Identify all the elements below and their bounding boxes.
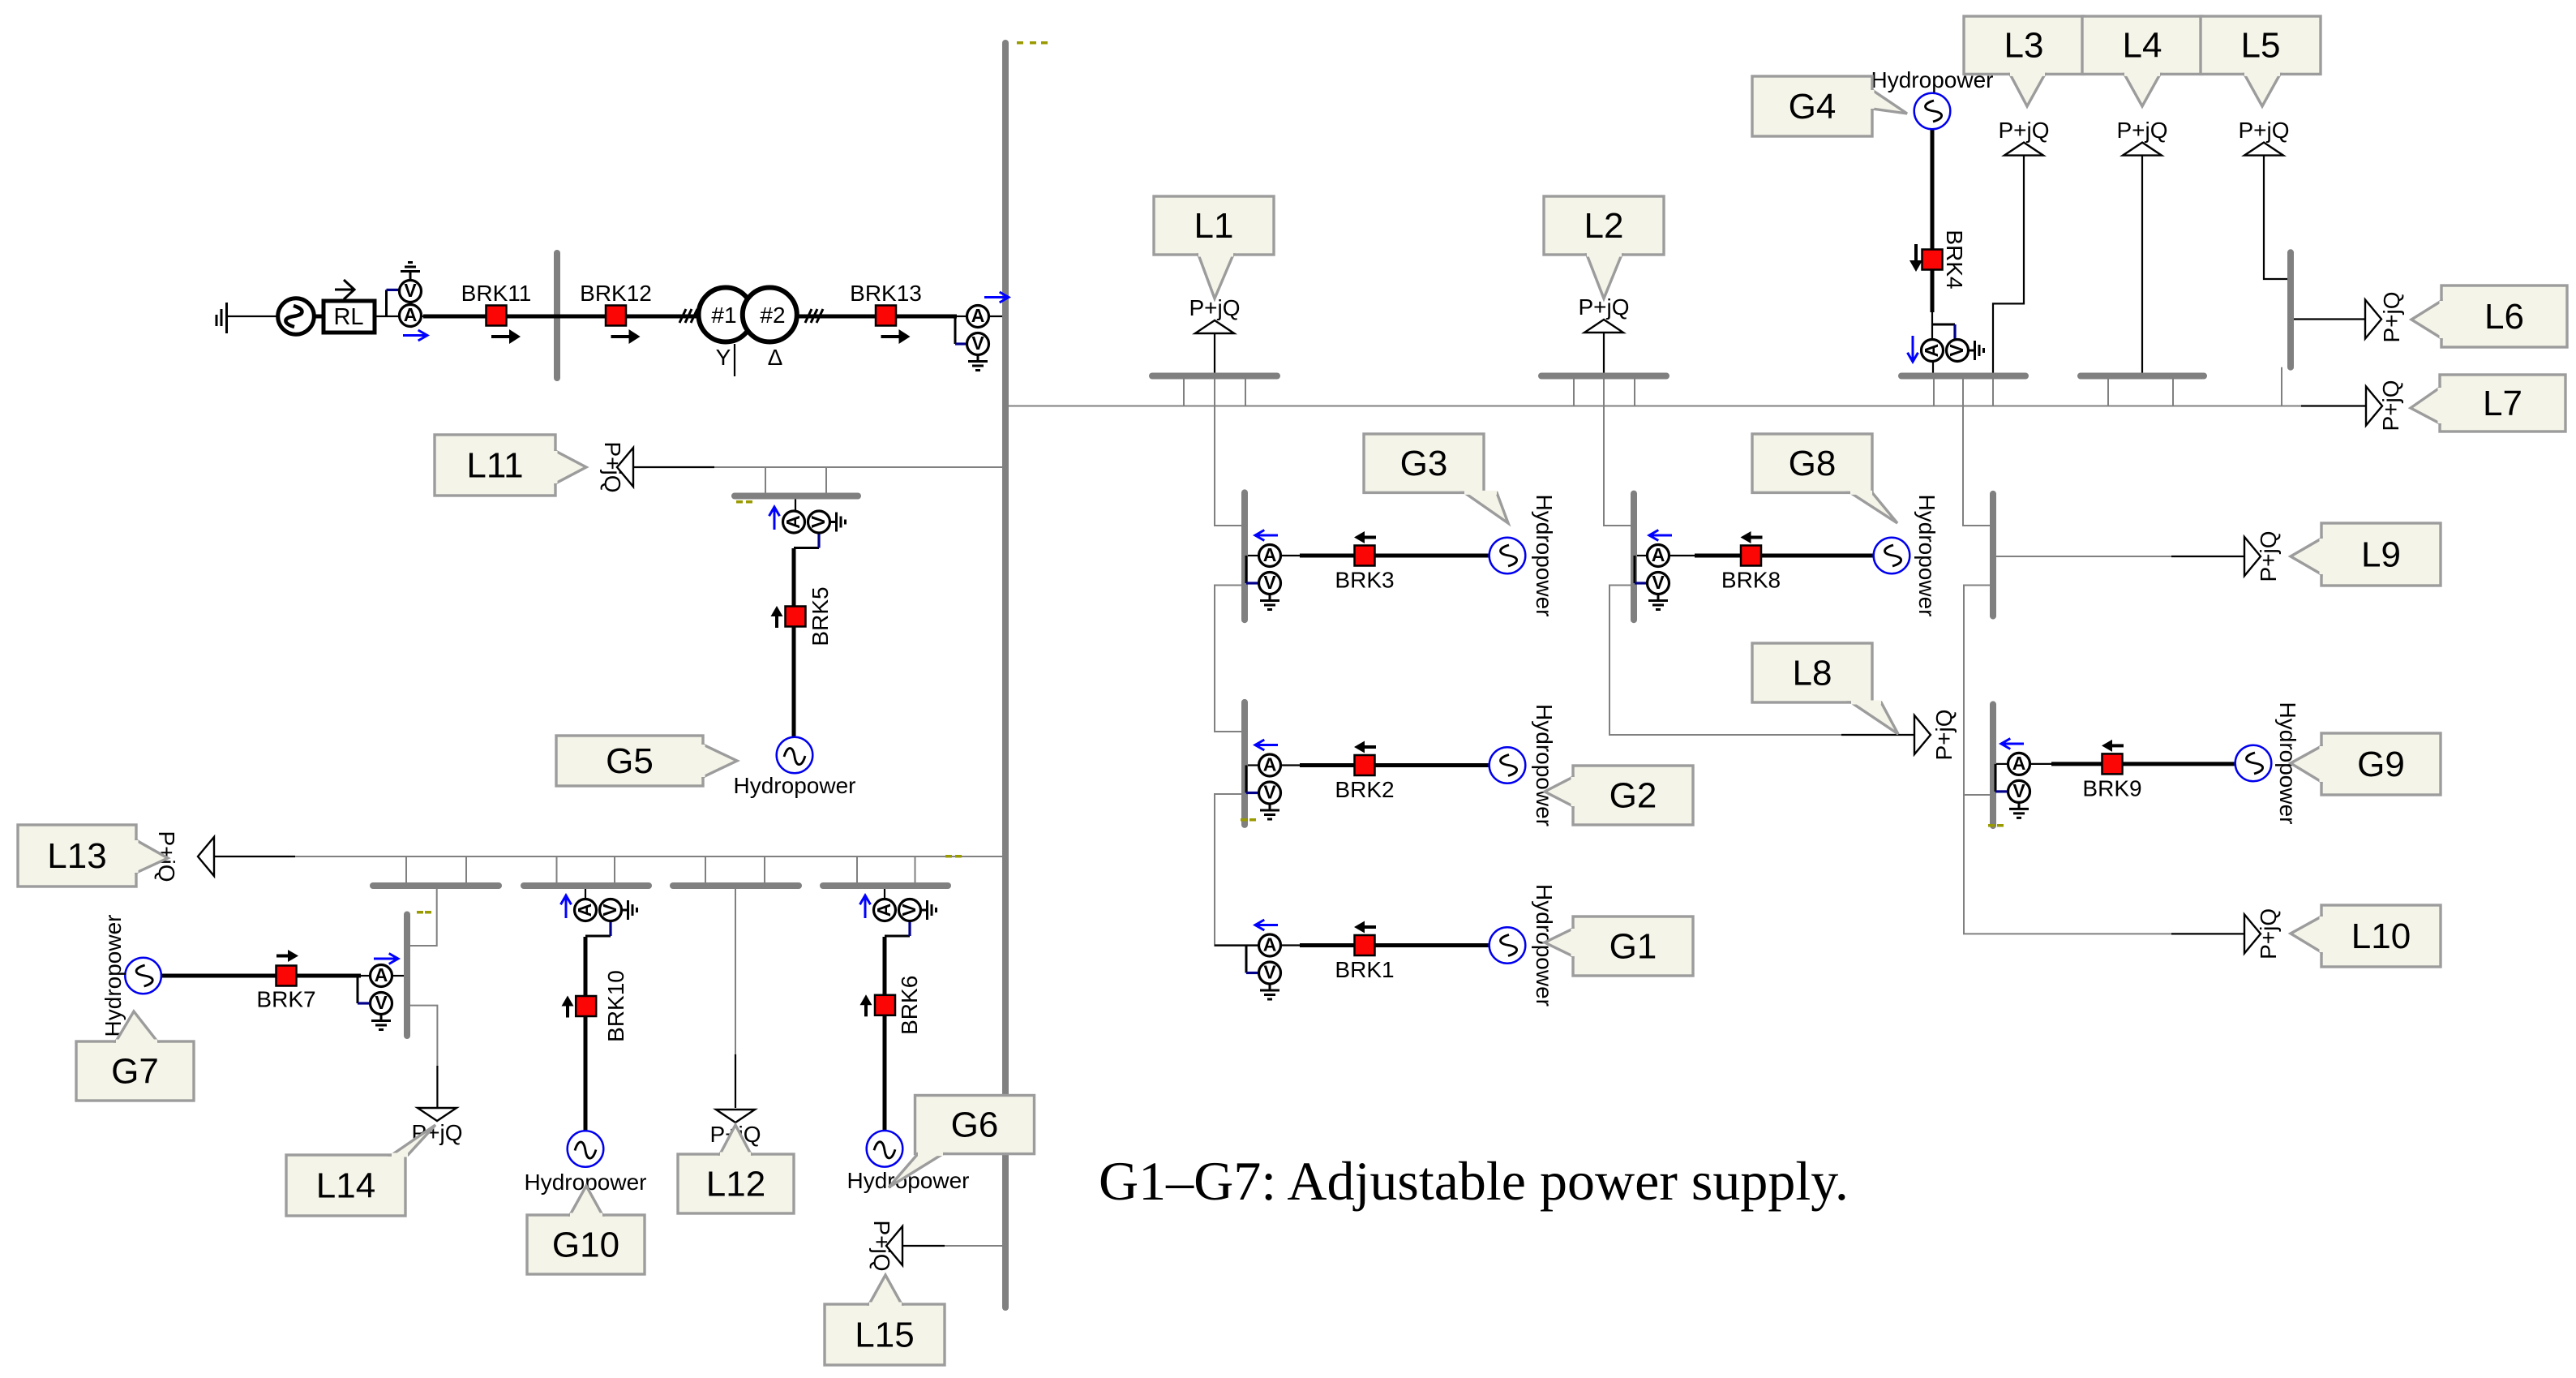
callout L13 <box>18 825 168 886</box>
ammeter A (G10) <box>574 899 597 921</box>
ammeter A (G8) <box>1648 544 1669 567</box>
wire main trunk to L7 <box>1005 406 2301 407</box>
wire G1 tap <box>1215 944 1259 946</box>
bus G4/L3 <box>1901 373 2025 380</box>
wire meters to BRK11 <box>422 316 426 317</box>
G3 meter bracket <box>1245 556 1248 583</box>
wire G8 tap2 <box>1669 555 1695 556</box>
ground <box>1260 595 1279 610</box>
wire G9 bus tap <box>1996 763 2008 765</box>
bus L1 <box>1152 373 1277 380</box>
voltmeter V (G10) <box>599 899 622 921</box>
mark <box>417 911 423 914</box>
mark <box>945 855 952 858</box>
BRK12 flow arrow <box>611 329 641 344</box>
wire stub bus5 left <box>705 856 706 883</box>
callout L2 <box>1544 196 1664 298</box>
mark <box>425 911 431 914</box>
svg-text:G10: G10 <box>552 1226 619 1265</box>
BRK6 flow arrow <box>860 994 872 1016</box>
wire stub L4 bus right <box>2172 379 2174 406</box>
wire L15 to main bus <box>945 1245 1005 1247</box>
wire RL to meters junction <box>375 316 400 317</box>
svg-text:BRK2: BRK2 <box>1335 777 1394 802</box>
wire G4 thick <box>1931 128 1935 312</box>
svg-text:Hydropower: Hydropower <box>734 773 856 798</box>
wire stub bus4 left <box>556 856 558 883</box>
svg-text:BRK12: BRK12 <box>580 281 652 306</box>
ground <box>968 355 988 371</box>
wire L15 stem <box>902 1245 945 1247</box>
wire stub G4 bus right <box>1992 379 1994 406</box>
wire G2 bus to G1 row <box>1215 794 1259 946</box>
breaker BRK13 <box>876 306 896 326</box>
load L3 arrow <box>2004 143 2043 156</box>
wire L9 <box>1996 556 2171 557</box>
callout L1 <box>1154 196 1274 298</box>
wire right meters to main bus <box>989 316 1006 317</box>
svg-text:P+jQ: P+jQ <box>2378 380 2403 431</box>
chain meter bracket <box>385 290 388 316</box>
bus bottom 2 <box>524 882 649 889</box>
ground <box>1648 595 1668 610</box>
svg-text:P+jQ: P+jQ <box>2238 118 2289 143</box>
ammeter A (G3) <box>1259 544 1281 567</box>
wire stub L1 bus left <box>1183 379 1185 406</box>
wire L1 triangle stem <box>1214 333 1215 373</box>
voltmeter V (G1) <box>1259 962 1281 985</box>
svg-text:V: V <box>375 992 388 1013</box>
wire L7 stem <box>2301 405 2366 406</box>
generator G7 <box>125 958 161 994</box>
callout L9 <box>2291 523 2441 586</box>
mark <box>1030 41 1036 45</box>
svg-text:BRK11: BRK11 <box>461 281 532 306</box>
svg-text:BRK8: BRK8 <box>1721 568 1781 593</box>
transformer T1 <box>699 288 797 342</box>
bus L2 <box>1541 373 1666 380</box>
wire L10 stem <box>2171 933 2244 934</box>
G7 meter bracket <box>357 976 359 1003</box>
blue arrow G4 <box>1908 336 1918 362</box>
svg-text:L14: L14 <box>316 1166 375 1206</box>
mark <box>1041 41 1048 45</box>
voltmeter V (G3) <box>1259 572 1281 595</box>
svg-text:BRK7: BRK7 <box>256 987 315 1012</box>
svg-text:BRK13: BRK13 <box>850 281 922 306</box>
svg-text:V: V <box>1263 572 1276 593</box>
svg-text:A: A <box>782 515 804 529</box>
svg-text:L12: L12 <box>706 1165 765 1204</box>
svg-text:P+jQ: P+jQ <box>600 441 625 492</box>
arrow above RL <box>335 280 354 299</box>
wire stub L2 bus left <box>1573 379 1575 406</box>
callout G4 <box>1752 76 1907 136</box>
svg-text:BRK4: BRK4 <box>1942 230 1967 289</box>
bus G5 <box>735 493 858 500</box>
svg-text:P+jQ: P+jQ <box>2256 908 2281 959</box>
callout G2 <box>1545 766 1693 825</box>
load L4 arrow <box>2123 143 2162 156</box>
wire L13 stem <box>214 856 295 857</box>
wire G3 bus to G2 bus <box>1215 586 1243 732</box>
ammeter A (G5) <box>782 511 805 533</box>
mark <box>1997 824 2004 827</box>
bus G9 <box>1990 704 1996 826</box>
svg-text:A: A <box>1263 754 1277 775</box>
mark <box>1249 818 1256 822</box>
svg-text:L4: L4 <box>2123 26 2162 66</box>
BRK13 flow arrow <box>881 329 911 344</box>
wire G10 thick <box>584 937 588 1132</box>
svg-text:Y: Y <box>716 345 731 370</box>
svg-text:A: A <box>971 305 985 326</box>
svg-text:Hydropower: Hydropower <box>1532 495 1557 617</box>
generator G10 <box>568 1131 604 1167</box>
wire G7 tap <box>361 975 371 977</box>
ammeter A (G9) <box>2008 753 2030 775</box>
ground <box>401 263 420 281</box>
callout G5 <box>556 736 737 786</box>
load L9 arrow <box>2244 537 2261 576</box>
wire bus4 to G10 meters <box>585 889 586 900</box>
bus L4 <box>2081 373 2204 380</box>
voltmeter V (G2) <box>1259 782 1281 805</box>
G8 meter bracket <box>1634 556 1636 583</box>
ground <box>2009 802 2029 818</box>
blue arrow G6 <box>860 895 871 918</box>
svg-text:L6: L6 <box>2484 297 2524 337</box>
BRK5 flow arrow <box>771 606 783 628</box>
wire G6 thick <box>883 937 887 1131</box>
G6 meter bracket <box>885 935 910 938</box>
svg-text:V: V <box>404 280 417 301</box>
wire stub bus6 right <box>915 856 916 883</box>
svg-text:G7: G7 <box>111 1052 159 1092</box>
wire chain thick <box>423 315 957 319</box>
wire stub G5 bus right <box>825 467 827 493</box>
svg-text:P+jQ: P+jQ <box>2379 291 2404 342</box>
blue arrow G10 <box>561 895 572 918</box>
breaker BRK2 <box>1355 755 1375 775</box>
callout G1 <box>1545 917 1693 976</box>
svg-text:Hydropower: Hydropower <box>1532 704 1557 826</box>
load L1 arrow <box>1195 320 1234 333</box>
wire L8 stem <box>1841 734 1914 736</box>
voltmeter V (G5) <box>808 511 830 533</box>
wire G9 thick <box>2051 762 2236 766</box>
svg-text:L1: L1 <box>1194 206 1234 246</box>
G5 meter bracket <box>794 547 819 549</box>
wire G3 tap2 <box>1281 555 1301 556</box>
svg-text:#2: #2 <box>760 303 785 328</box>
breaker BRK4 <box>1922 250 1943 270</box>
generator G8 <box>1874 538 1910 574</box>
svg-text:A: A <box>1263 544 1277 565</box>
load L2 arrow <box>1584 320 1623 333</box>
wire G5 thick <box>792 548 796 738</box>
wire BRK13 meters gap <box>957 316 967 317</box>
wire bus10 to G9 bus to L10 <box>1964 586 2171 934</box>
G9 meter bracket <box>1995 764 1997 792</box>
wire G3 bus tap <box>1248 555 1259 556</box>
wire G1 thick <box>1300 943 1490 947</box>
ammeter A (chain left) <box>400 304 422 327</box>
bus bottom 4 <box>823 882 948 889</box>
svg-text:G5: G5 <box>606 741 654 781</box>
wire stub L4 bus left <box>2107 379 2109 406</box>
wire L2 triangle stem <box>1603 333 1605 373</box>
ground <box>830 513 846 532</box>
callout L7 <box>2411 375 2565 431</box>
voltmeter V (G9) <box>2008 780 2030 803</box>
svg-text:Hydropower: Hydropower <box>101 915 126 1037</box>
ground <box>1260 804 1279 819</box>
blue arrow G5 <box>769 507 780 530</box>
ammeter A (G4) <box>1921 340 1944 362</box>
wire stub bus4 right <box>614 856 615 883</box>
BRK9 flow arrow <box>2102 740 2124 752</box>
callout L10 <box>2291 905 2441 967</box>
svg-text:V: V <box>1652 572 1665 593</box>
callout L11 <box>435 435 586 496</box>
breaker BRK9 <box>2102 753 2123 774</box>
wire L11 to main bus <box>714 466 1005 468</box>
wire stub G5 bus left <box>765 467 766 493</box>
breaker BRK12 <box>606 306 626 326</box>
RL block <box>324 301 375 333</box>
callout L3 <box>1964 16 2084 106</box>
wire stub bus3 right <box>465 856 467 883</box>
svg-text:L7: L7 <box>2483 384 2522 423</box>
wire L6 <box>2293 318 2365 320</box>
blue arrow G8 <box>1649 530 1672 541</box>
blue arrow chain right <box>984 292 1009 303</box>
bus G8 <box>1631 494 1637 620</box>
svg-text:P+jQ: P+jQ <box>2116 118 2167 143</box>
mark <box>1017 41 1023 45</box>
wire G3 thick <box>1300 554 1490 558</box>
voltmeter V (G8) <box>1648 572 1669 595</box>
svg-text:RL: RL <box>333 304 363 330</box>
wire stub G4 bus left <box>1933 379 1935 406</box>
mark <box>955 855 962 858</box>
wire source chain <box>227 316 279 317</box>
svg-text:A: A <box>1652 544 1665 565</box>
bus bottom 1 <box>373 882 499 889</box>
BRK3 flow arrow <box>1354 531 1376 543</box>
ammeter A (G6) <box>873 899 896 921</box>
svg-text:BRK9: BRK9 <box>2082 775 2141 801</box>
blue arrow G7 <box>374 954 398 964</box>
ground <box>1260 984 1279 999</box>
svg-text:P+jQ: P+jQ <box>869 1220 894 1271</box>
wire L11 stem <box>633 466 714 468</box>
svg-text:A: A <box>2012 753 2026 774</box>
breaker BRK3 <box>1355 546 1375 566</box>
breaker BRK6 <box>875 995 895 1015</box>
callout L5 <box>2201 16 2321 106</box>
voltmeter V (G6) <box>898 899 921 921</box>
breaker BRK10 <box>576 996 596 1016</box>
wire L14 stem <box>436 1066 438 1108</box>
load L8 arrow <box>1914 715 1931 754</box>
wire G2 thick <box>1300 763 1490 767</box>
load L10 arrow <box>2244 914 2261 953</box>
wire stub bus6 left <box>856 856 858 883</box>
generator G2 <box>1489 747 1526 783</box>
svg-text:BRK1: BRK1 <box>1335 957 1394 982</box>
callout G3 <box>1364 434 1508 523</box>
wire L12 <box>735 889 736 1054</box>
bus L5/L6 vertical <box>2287 252 2294 367</box>
load L13 arrow <box>198 837 214 876</box>
svg-text:G1–G7: Adjustable power supply: G1–G7: Adjustable power supply. <box>1099 1150 1849 1212</box>
wire G1 tap2 <box>1281 944 1300 946</box>
wire L3 stem <box>1993 156 2024 373</box>
wire source to RL <box>313 315 324 319</box>
ground <box>1969 341 1984 360</box>
svg-text:A: A <box>873 904 894 917</box>
callout L8 <box>1752 643 1898 734</box>
load L7 arrow <box>2366 387 2382 426</box>
voltmeter V (G7) <box>371 992 392 1015</box>
main vertical bus <box>1002 43 1009 1307</box>
svg-text:BRK10: BRK10 <box>603 970 628 1042</box>
BRK7 flow arrow <box>276 950 298 962</box>
callout G6 <box>889 1096 1035 1188</box>
svg-text:L11: L11 <box>466 446 523 486</box>
wire G5 bus to meters <box>795 500 796 512</box>
wire L5 stem <box>2264 156 2287 279</box>
svg-text:A: A <box>574 904 595 917</box>
ammeter A (G1) <box>1259 934 1281 957</box>
svg-text:V: V <box>808 515 829 528</box>
svg-text:P+jQ: P+jQ <box>1998 118 2049 143</box>
slash marks left <box>679 309 697 323</box>
wire G4 bus to bus10 <box>1963 379 1990 526</box>
wire G8 thick <box>1695 554 1875 558</box>
svg-text:L13: L13 <box>47 836 106 876</box>
wire G7 bus tap <box>392 975 405 977</box>
load L14 arrow <box>418 1108 456 1121</box>
breaker BRK5 <box>786 607 806 627</box>
wire G4 bracket stem <box>1931 312 1933 340</box>
callout L15 <box>825 1275 945 1365</box>
wire L4 stem <box>2141 156 2143 373</box>
wire bus3 to G7 bus <box>410 888 437 946</box>
svg-text:P+jQ: P+jQ <box>2256 530 2281 582</box>
callout L4 <box>2082 16 2202 106</box>
svg-text:G3: G3 <box>1400 444 1448 483</box>
G1 meter bracket <box>1245 946 1248 973</box>
wire L12 stem <box>735 1054 736 1108</box>
bus L9 vertical <box>1990 494 1996 616</box>
breaker BRK1 <box>1355 935 1375 955</box>
svg-text:G8: G8 <box>1789 444 1837 483</box>
svg-text:L3: L3 <box>2004 26 2044 66</box>
svg-text:G4: G4 <box>1789 87 1837 127</box>
ammeter A (G7) <box>371 964 392 987</box>
svg-text:G1: G1 <box>1609 927 1657 967</box>
svg-text:A: A <box>404 304 418 325</box>
bus G3 <box>1241 492 1248 620</box>
generator source <box>278 298 315 335</box>
callout G9 <box>2291 733 2441 795</box>
svg-text:L5: L5 <box>2241 26 2281 66</box>
svg-text:G9: G9 <box>2357 745 2405 784</box>
wire stub G9 bus <box>1964 794 1990 796</box>
wire stub bus5 right <box>764 856 765 883</box>
wire G2 bus tap <box>1248 764 1259 766</box>
callout L6 <box>2411 285 2567 347</box>
svg-text:A: A <box>1263 934 1277 955</box>
BRK4 flow arrow <box>1909 244 1922 272</box>
BRK2 flow arrow <box>1354 741 1376 753</box>
svg-text:V: V <box>1263 962 1276 983</box>
breaker BRK8 <box>1741 546 1761 566</box>
svg-text:V: V <box>1946 344 1967 357</box>
svg-text:L9: L9 <box>2361 535 2401 575</box>
wire G2 tap2 <box>1281 764 1301 766</box>
chain right meter bracket <box>954 316 957 344</box>
wire stub bus3 left <box>405 856 407 883</box>
svg-text:BRK6: BRK6 <box>897 976 922 1035</box>
bus bottom 3 <box>673 882 799 889</box>
svg-text:BRK3: BRK3 <box>1335 568 1394 593</box>
svg-text:#1: #1 <box>711 303 736 328</box>
callout G7 <box>76 1011 194 1101</box>
wire stub L1 bus right <box>1245 379 1246 406</box>
bus G7 <box>404 915 410 1037</box>
generator G1 <box>1489 927 1526 964</box>
slash marks right <box>805 309 823 323</box>
mark <box>736 500 743 504</box>
callout L12 <box>678 1125 794 1213</box>
transformer neutral stem <box>734 344 735 376</box>
svg-text:A: A <box>1921 344 1942 358</box>
voltmeter V (G4) <box>1946 340 1969 362</box>
callout G8 <box>1752 434 1897 523</box>
wire stub L2 bus right <box>1634 379 1635 406</box>
generator G9 <box>2235 745 2272 782</box>
svg-text:A: A <box>375 964 388 985</box>
mark <box>746 500 752 504</box>
svg-text:Δ: Δ <box>768 345 783 370</box>
G10 meter bracket <box>585 935 611 938</box>
svg-text:V: V <box>971 333 984 354</box>
load L6 arrow <box>2365 300 2381 339</box>
wire stub bus13 bottom <box>2281 367 2282 406</box>
wire L1 bus to G3 bus <box>1215 379 1243 526</box>
svg-text:P+jQ: P+jQ <box>1931 709 1957 760</box>
voltmeter V (chain right) <box>967 333 989 355</box>
svg-text:V: V <box>1263 782 1276 803</box>
wire G8 bus tap <box>1637 555 1648 556</box>
wire G7 thick <box>161 974 361 978</box>
ground far left <box>216 303 227 333</box>
mark <box>1241 818 1247 822</box>
ground <box>622 900 637 920</box>
voltmeter V (chain left) <box>400 280 422 303</box>
svg-text:L10: L10 <box>2351 917 2411 956</box>
ground <box>371 1015 391 1030</box>
wire bus6 to G6 meters <box>884 889 885 900</box>
blue arrow chain left <box>403 330 427 341</box>
blue arrow G9 <box>2001 739 2024 749</box>
wire L2 bus to G8 bus <box>1604 379 1632 526</box>
wire L9 stem <box>2171 556 2244 557</box>
